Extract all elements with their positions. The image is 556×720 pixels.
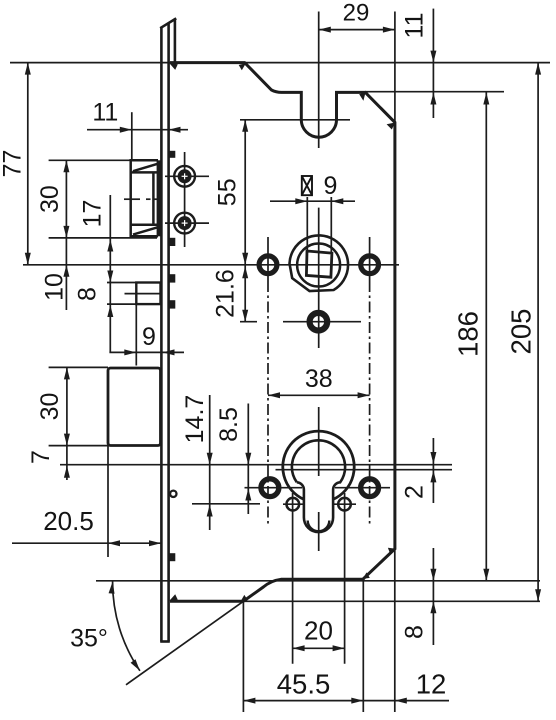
svg-text:9: 9 [142,323,156,351]
svg-text:77: 77 [0,150,27,178]
cylinder profile hole [292,440,345,532]
square 9 right extension [330,197,332,252]
arrow arc bottom [131,659,143,672]
dimension 9 faceplate line [109,351,184,353]
follower square hole 9mm [306,251,332,277]
dimension 11 right line [432,9,434,118]
svg-text:8: 8 [74,287,102,301]
arrow 11 tl right [169,127,181,133]
arrow 8.5 top [245,453,251,465]
arrow 30 latch bottom [63,226,69,238]
reference line 55 top [240,119,350,121]
arrow 8 br top [430,569,436,581]
arrow 30 deadbolt bottom [64,434,70,446]
svg-text:10: 10 [41,273,69,301]
bottom reference line [243,600,540,602]
aux latch top extension line [107,282,136,284]
cylinder right hole [361,479,379,497]
arrow 11 tl left [120,127,132,133]
right edge extension bottom [394,549,396,712]
latch centerline [124,198,140,200]
svg-text:45.5: 45.5 [277,669,331,700]
faceplate nub 4 [170,300,176,308]
svg-text:14.7: 14.7 [181,395,209,444]
dimension 38 line [268,394,370,396]
arrow sq9 right [331,198,343,204]
edge arrow bottom vertex [240,595,247,603]
edge arrow slope tr bottom [387,123,396,130]
arrow 11 right bottom [430,93,436,105]
deadbolt top extension line [49,366,108,368]
svg-text:21.6: 21.6 [212,269,240,318]
arrow 9 left [124,349,136,355]
top edge reference line [10,62,550,64]
bottom hole axis line [240,321,257,323]
arrow 7 [64,466,70,478]
hole 20 right extension [344,493,346,664]
arrow 8 top [107,271,113,283]
small holes axis extension [192,503,260,505]
dimension 55 / 21.6 line [244,120,246,322]
svg-text:9: 9 [324,172,338,200]
edge arrow top vertex [239,63,246,70]
arrow 77 top [25,63,31,75]
notch shelf reference line 11 [365,91,504,93]
latch face bar [157,160,162,236]
label square [302,176,312,195]
arrow 21.6 top [242,266,248,278]
arrow 8.5 bottom [245,489,251,501]
arrow 11 right top [430,51,436,63]
latch bolt [131,160,158,236]
screw hole bottom crosshair [165,222,209,224]
aux latch bottom extension line [107,303,136,305]
deadbolt left extension [107,446,109,557]
arrow 29 left [319,27,331,33]
dimension 2 line [432,438,434,503]
edge arrow chamfer top [388,548,395,555]
arrow 205 top [535,63,541,75]
screw hole bottom [174,213,195,234]
arrow 20 right [333,645,345,651]
svg-text:205: 205 [506,309,537,355]
svg-text:20.5: 20.5 [43,506,94,536]
arrow 21.6 bottom [242,310,248,322]
arrow 45.5 right [351,698,363,704]
deadbolt [108,368,161,446]
svg-text:55: 55 [214,178,242,206]
edge arrow slope tr top [359,92,365,101]
arrow 55 top [242,120,248,132]
arrow 30 latch top [63,160,69,172]
svg-text:2: 2 [401,485,429,499]
latch top extension line [49,159,131,161]
square 9 left extension [306,197,308,252]
svg-text:17: 17 [79,200,107,228]
arrow 186 bottom [483,569,489,581]
cylinder tip inner arc [308,521,330,532]
arrow 2 top [430,452,436,464]
svg-text:12: 12 [416,669,447,700]
cylinder boss circle [283,431,354,499]
arrow 38 left [268,392,280,398]
arrow 20 left [293,645,305,651]
svg-text:11: 11 [92,98,118,126]
follower axis centerline [23,264,399,266]
right edge extension top [394,12,396,123]
angle 35 diagonal [126,601,243,685]
arrow arc top [109,581,116,593]
follower left hole [259,256,277,274]
arrow 20.5 right [149,540,161,546]
angle 35 arc [113,582,140,671]
latch left extension [131,112,133,160]
dimension 8 bottom right line [432,548,434,645]
arrow 20.5 left [108,540,120,546]
dimension 29 line [319,29,395,31]
svg-text:8: 8 [401,625,429,639]
small hole right [338,498,351,511]
main vertical centerline [318,12,320,149]
hole below follower [310,313,328,331]
svg-text:20: 20 [304,616,333,646]
dimension 14.7 line [209,395,211,530]
edge arrow top faceplate [169,63,178,70]
arrow 55 bottom [242,253,248,265]
arrow 205 bottom [535,589,541,601]
dimension 8.5 line [247,404,249,515]
svg-text:30: 30 [36,185,64,213]
dimension 20.5 line [12,542,161,544]
arrow 45.5 left [243,698,255,704]
faceplate hook pin [170,491,176,497]
lock body outline [170,63,395,602]
aux latch [136,283,160,305]
svg-text:38: 38 [305,365,333,393]
body bottom extension line [96,580,540,582]
arrow 186 top [483,93,489,105]
dimension 45.5 and 12 line [243,700,449,702]
arrow 14.7 bottom [207,505,213,517]
arrow sq9 left [295,198,307,204]
dimension 205 line [537,63,539,602]
faceplate nub 5 [170,553,176,561]
dimension 20 line [293,647,345,649]
arrow 8 bottom [107,305,113,317]
arrow 29 right [383,27,395,33]
faceplate nub 1 [170,151,176,158]
svg-text:11: 11 [401,13,429,39]
screw hole top [174,166,195,187]
svg-text:8.5: 8.5 [215,407,243,442]
arrow 38 right [358,392,370,398]
dimension 77 line [27,63,29,265]
arrow 10 [63,265,69,277]
svg-text:30: 30 [36,393,64,421]
faceplate nub 2 [170,238,176,246]
cylinder left hole [261,479,279,497]
aux latch left extension [135,304,137,365]
hole 20 left extension [292,493,294,664]
svg-text:7: 7 [27,450,55,464]
right holes dash-dot centerline [369,237,371,281]
deadbolt bottom extension line [49,445,108,447]
edge arrow bottom faceplate [169,594,178,601]
arrow 9 right [163,349,175,355]
small hole left [287,498,300,511]
svg-text:35°: 35° [70,625,108,653]
dimension 11 top-left line [87,129,188,131]
faceplate [160,18,176,641]
arrow 8 br bottom [430,601,436,613]
chamfer corner extension line [362,581,364,712]
follower hub outline [290,235,349,291]
follower right hole [361,256,379,274]
offset axis line 2mm [276,469,453,471]
dimension 30 latch / 10 line [65,160,67,310]
dimension 30 deadbolt / 7 line [66,367,68,480]
arrow 17 [107,240,113,252]
faceplate nub 3 [170,274,176,282]
left holes dash-dot centerline [267,237,269,281]
arrow 12 right [395,698,407,704]
vertex extension line [242,601,244,712]
screw holes centerline [184,152,186,247]
arrow 77 bottom [25,253,31,265]
edge arrow chamfer bottom [363,572,370,579]
cylinder axis line [60,464,452,466]
side holes axis line [245,487,303,489]
latch bottom extension line [49,237,157,239]
arrow 2 bottom [430,470,436,482]
arrow 14.7 top [207,453,213,465]
follower inner circle [297,244,340,287]
svg-text:29: 29 [343,0,370,26]
dimension 186 line [485,92,487,581]
aux latch centerline [125,293,161,295]
svg-text:186: 186 [453,311,484,357]
dimension 9 square line [270,200,355,202]
arrow 30 deadbolt top [64,367,70,379]
screw hole top crosshair [165,175,209,177]
dimension 17 / 8 line [109,195,111,352]
